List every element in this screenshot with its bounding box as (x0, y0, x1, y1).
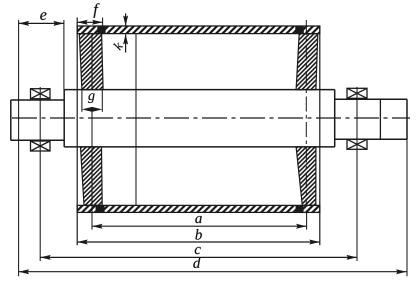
dimension f (77, 3, 102, 25)
g-left extension line (81, 91, 83, 112)
left bearing axis / c-left extension (39, 87, 41, 261)
drum right rim edge line (319, 26, 321, 245)
e-left / d-left extension line (18, 20, 20, 276)
shaft left end face (10, 100, 12, 140)
dimension c (40, 247, 357, 260)
d-right extension line (406, 139, 408, 276)
right end disc lower half (296, 147, 316, 206)
right bearing axis / c-right extension (356, 87, 358, 261)
hub barrel bottom edge (64, 146, 335, 148)
right disc centerline (305, 20, 307, 206)
dimension a (92, 216, 307, 229)
g-right extension line (101, 91, 103, 112)
bearing top right (347, 88, 367, 98)
dimension b (77, 229, 320, 244)
weld joint bottom left (96, 206, 105, 213)
shaft right journal top edge (335, 98, 407, 100)
left disc seam / a-left extension line (91, 109, 93, 229)
left end disc upper half (79, 34, 103, 90)
dimension k lower arrow and label (113, 34, 128, 53)
hub barrel top edge (64, 89, 335, 91)
dimension g (82, 93, 102, 111)
drum interior line (135, 34, 137, 206)
weld joint top left (97, 26, 105, 33)
f-right extension line (102, 18, 104, 27)
e-right extension line (63, 20, 65, 90)
dimension d (19, 257, 407, 274)
weld joint bottom right (296, 206, 304, 213)
shaft left journal top edge (11, 99, 64, 101)
shaft right shoulder step (334, 90, 336, 147)
shaft left journal bottom edge (11, 139, 64, 141)
left end disc lower half (81, 147, 103, 206)
bearing bottom right (347, 139, 367, 149)
right end disc upper half (296, 34, 318, 90)
drum shell bottom strip (77, 205, 320, 212)
shaft right junction line (379, 99, 381, 139)
shaft right end face (406, 99, 408, 139)
drum left rim edge line (76, 18, 78, 246)
dimension e (19, 12, 64, 26)
shaft left shoulder step (63, 90, 65, 147)
bearing bottom left (31, 141, 51, 151)
dimension k upper arrow (123, 13, 128, 26)
bearing top left (31, 89, 51, 99)
drum shell top strip (77, 26, 320, 34)
axis centerline (12, 117, 410, 119)
a-right extension line (306, 212, 308, 229)
left disc seam line upper (91, 34, 93, 90)
shaft right journal bottom edge (335, 138, 407, 140)
weld joint top right (295, 26, 304, 33)
